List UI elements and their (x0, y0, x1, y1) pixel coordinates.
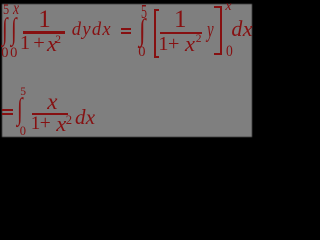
fraction 3 denominator x (56, 113, 66, 136)
equals sign row2 top bar (2, 109, 13, 111)
right bracket (214, 6, 221, 54)
fraction 2 numerator 1 (174, 7, 187, 32)
equals sign row2 bottom bar (2, 113, 13, 115)
integral sign 4 (17, 94, 23, 125)
fraction 3 numerator x (47, 90, 57, 113)
lower limit 0 (second) (10, 46, 17, 61)
fraction 1 denominator exponent 2 (55, 35, 61, 47)
fraction 1 bar (23, 31, 65, 33)
fraction 2 denominator + (168, 34, 180, 55)
equals sign row1 top bar (121, 28, 132, 30)
upper limit x (13, 0, 19, 18)
lower limit 0 (20, 125, 26, 138)
left bracket (154, 9, 159, 58)
upper limit 5 (3, 3, 9, 18)
fraction 2 denominator x (185, 33, 195, 56)
upper limit 5 (141, 2, 147, 22)
fraction 3 denominator 1 (31, 114, 41, 133)
fraction 1 denominator + (33, 33, 45, 54)
fraction 1 numerator 1 (38, 7, 51, 32)
dydx (72, 21, 112, 40)
integral sign 1 (2, 14, 8, 45)
upper limit 5 (20, 87, 26, 99)
subscript 0 on bracket (226, 44, 233, 60)
integral sign 2 (11, 14, 17, 45)
dx row1 (231, 18, 252, 40)
y after fraction (207, 18, 214, 42)
fraction 2 bar (160, 32, 202, 34)
fraction 1 denominator 1 (20, 33, 30, 54)
lower limit 0 (138, 45, 145, 60)
lower limit 0 (first) (1, 46, 8, 61)
dx row2 (75, 107, 95, 128)
gray equation panel (2, 4, 252, 137)
fraction 3 bar (32, 113, 68, 115)
superscript x on bracket (225, 0, 231, 14)
fraction 2 denominator 1 (158, 34, 168, 55)
fraction 3 denominator + (40, 114, 51, 134)
integral sign 3 (139, 15, 146, 46)
equals sign row1 bottom bar (121, 32, 132, 34)
fraction 2 denominator exponent 2 (196, 34, 202, 46)
fraction 1 denominator x (47, 33, 57, 56)
fraction 3 denominator exponent 2 (66, 114, 72, 127)
